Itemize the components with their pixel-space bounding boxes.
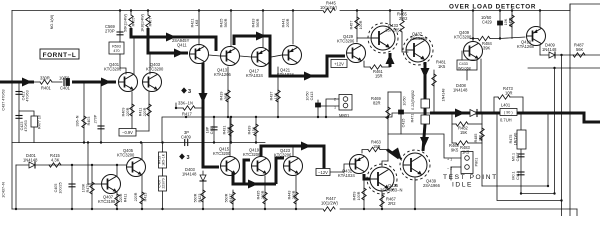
wire Q439 emitter bottom: [414, 178, 416, 209]
left border: [11, 11, 13, 210]
transistor Q423: [284, 157, 303, 176]
transistor Q421: [283, 46, 302, 65]
svg-text:C429: C429: [482, 20, 493, 25]
svg-text:C413: C413: [310, 92, 314, 101]
wire thick Q427 emitter down: [424, 62, 427, 99]
svg-text:R593: R593: [112, 45, 121, 49]
wire Q410 emitter / D409 line: [539, 45, 541, 55]
svg-text:2: 2: [334, 98, 336, 102]
svg-text:2R2: 2R2: [388, 201, 396, 206]
resistor R415: [49, 163, 61, 167]
node +12V box: [331, 60, 347, 68]
svg-text:C419: C419: [516, 171, 520, 180]
diode D408: [470, 110, 477, 117]
arrow input 2: [101, 78, 111, 87]
svg-text:M0.1: M0.1: [512, 153, 516, 161]
capacitor C409: [184, 140, 186, 146]
svg-text:2SA1966: 2SA1966: [423, 183, 441, 188]
wire Q433 collector: [389, 11, 391, 26]
connector M801: [339, 95, 352, 111]
arrow upper path 1: [166, 33, 176, 42]
svg-text:C437 470/63: C437 470/63: [2, 89, 6, 110]
svg-text:10(1/2W): 10(1/2W): [321, 201, 338, 206]
svg-text:2W2: 2W2: [399, 16, 408, 21]
svg-text:KTC3206: KTC3206: [274, 153, 292, 158]
svg-text:56R: 56R: [227, 126, 231, 133]
capacitor C415: [400, 92, 402, 134]
capacitor C419: [518, 172, 524, 175]
svg-text:R409: R409: [122, 108, 126, 117]
node -12V box: [316, 169, 330, 176]
svg-text:KTC3206: KTC3206: [243, 152, 261, 157]
top power rail: [12, 10, 322, 12]
svg-text:33K−1N: 33K−1N: [178, 101, 193, 106]
svg-text:56K: 56K: [576, 47, 584, 52]
capacitor C411: [213, 117, 215, 143]
wire thick Q419 collector to -12V: [261, 146, 324, 169]
svg-text:0.22(5W)B2: 0.22(5W)B2: [411, 90, 415, 110]
arrow mid path to +12V: [304, 72, 314, 81]
svg-text:10/50: 10/50: [403, 96, 407, 105]
resistor R484: [470, 38, 478, 40]
wire thick Q415 emitter rail: [233, 172, 276, 184]
resistor R423: [201, 190, 205, 202]
svg-text:KTA1024: KTA1024: [338, 173, 355, 178]
arrow down to Q439: [420, 137, 429, 147]
svg-text:KTA1024: KTA1024: [246, 73, 263, 78]
svg-text:KTC3198: KTC3198: [98, 199, 116, 204]
resistor R401: [40, 80, 52, 84]
junction dots output line: [451, 112, 453, 114]
transistor Q410: [527, 27, 546, 46]
svg-text:15R: 15R: [373, 144, 381, 149]
svg-text:R455: R455: [509, 18, 513, 27]
svg-text:2SC4883−N: 2SC4883−N: [380, 188, 402, 193]
svg-text:4.3K: 4.3K: [51, 158, 60, 163]
junction dots top rail: [119, 9, 121, 11]
transistor Q421 top wire: [292, 11, 294, 45]
resistor R439: [255, 117, 257, 143]
transistor Q401: [119, 73, 138, 92]
resistor R457: [356, 11, 358, 43]
svg-text:R401: R401: [41, 86, 52, 91]
resistor R403: [83, 82, 85, 143]
svg-text:200R: 200R: [261, 190, 265, 199]
wire feedback h193: [521, 193, 555, 195]
arrow Q415 emitter rail: [248, 180, 258, 189]
svg-text:223/70: 223/70: [162, 178, 166, 188]
svg-text:R413: R413: [144, 193, 148, 202]
svg-text:−0.9V: −0.9V: [122, 130, 133, 135]
svg-text:470/63: 470/63: [24, 120, 28, 131]
resistor R419: [227, 67, 229, 117]
svg-text:270P: 270P: [94, 114, 98, 123]
wire Q435 top: [382, 161, 388, 166]
resistor R407: [146, 15, 150, 27]
svg-text:18P: 18P: [206, 126, 210, 133]
capacitor C433 box: [461, 51, 463, 60]
svg-text:OVER LOAD DETECTOR: OVER LOAD DETECTOR: [449, 4, 536, 11]
svg-text:1N4148: 1N4148: [442, 89, 446, 102]
svg-text:R431: R431: [223, 126, 227, 135]
wire feedback h186: [482, 185, 548, 187]
wire thick riser to Q419 base: [244, 160, 250, 184]
svg-text:R411: R411: [124, 194, 128, 203]
svg-text:56R: 56R: [224, 92, 228, 99]
resistor R485: [481, 113, 483, 186]
wire thick Q413 collector to Q429 base: [234, 36, 345, 76]
junction dots right side: [560, 54, 562, 56]
svg-text:KTC3200: KTC3200: [213, 151, 231, 156]
resistor R411: [148, 92, 150, 131]
wire thick R471 to Q439: [424, 108, 427, 115]
wire to P801: [388, 134, 461, 158]
svg-text:TEST POINT: TEST POINT: [443, 174, 498, 181]
wire Q423 collector: [292, 146, 294, 156]
svg-text:1K5−1K: 1K5−1K: [162, 153, 166, 166]
svg-text:1N4148: 1N4148: [182, 172, 197, 177]
svg-text:3: 3: [187, 155, 190, 161]
resistor R419 box: [159, 152, 167, 168]
label FORNT-L box: [40, 49, 79, 59]
svg-text:10R: 10R: [505, 91, 513, 96]
wire thick Q431 emitter to Q435 base: [364, 174, 370, 179]
wire feedback h200: [497, 113, 562, 201]
wire Q410 base: [500, 37, 525, 39]
resistor R459 / Q431 emitter: [363, 179, 365, 209]
svg-text:15K: 15K: [252, 126, 256, 133]
svg-text:1N4148: 1N4148: [542, 47, 557, 52]
resistor R409: [131, 92, 133, 131]
svg-text:KTC3200: KTC3200: [117, 153, 135, 158]
svg-text:− 2: − 2: [447, 167, 452, 171]
wire thick riser to Q423 base: [276, 158, 284, 184]
capacitor C413: [317, 100, 319, 117]
wire mid-left horizontal: [12, 142, 265, 144]
arrow down Q427 emitter: [421, 68, 430, 78]
arrow upper path 2: [174, 49, 184, 58]
svg-text:470/63: 470/63: [26, 90, 30, 101]
svg-text:R441: R441: [282, 19, 286, 28]
svg-text:KTC3200: KTC3200: [146, 67, 164, 72]
svg-text:KTC3206: KTC3206: [104, 67, 122, 72]
svg-text:82R: 82R: [373, 101, 381, 106]
svg-text:200R: 200R: [286, 18, 290, 27]
svg-text:R459: R459: [353, 192, 357, 201]
svg-text:M0.1: M0.1: [512, 171, 516, 179]
resistor R479: [91, 165, 93, 209]
resistor R463b: [362, 150, 368, 154]
svg-text:L401: L401: [501, 103, 511, 108]
transistor Q433: [368, 23, 398, 53]
wire thick R407 node to Q411 base: [148, 28, 188, 53]
svg-text:560R: 560R: [225, 193, 229, 202]
svg-text:C417: C417: [516, 153, 520, 162]
transistor Q417: [252, 48, 271, 67]
wire thick output line: [430, 113, 600, 122]
svg-text:1K8(1/4W): 1K8(1/4W): [141, 14, 145, 32]
transistor Q413 top wire: [230, 11, 232, 47]
svg-text:R477 10: R477 10: [38, 115, 42, 129]
right border rail: [570, 4, 600, 11]
wire thick Q411 collector down to Q415 base: [203, 63, 219, 167]
resistor R431: [230, 117, 232, 143]
svg-text:1N4148: 1N4148: [23, 158, 38, 163]
wire thick input signal: [0, 81, 34, 84]
resistor R447 inline bottom rail: [323, 207, 335, 211]
svg-text:10/50: 10/50: [306, 91, 310, 100]
arrow Q419 collector path: [301, 142, 311, 151]
svg-text:R433: R433: [252, 19, 256, 28]
resistor R482: [451, 113, 453, 143]
arrow input 1: [22, 78, 32, 87]
transistor Q435: [367, 164, 397, 194]
svg-text:R479: R479: [86, 184, 90, 193]
svg-text:470: 470: [113, 49, 119, 53]
svg-text:2SC5358: 2SC5358: [410, 36, 428, 41]
svg-text:R403: R403: [87, 117, 91, 126]
svg-text:M801: M801: [339, 113, 350, 118]
wire Q431 base from -12V: [330, 164, 350, 172]
svg-text:1K8: 1K8: [195, 20, 199, 27]
node -0.9V box: [119, 129, 136, 137]
transistor Q413: [221, 47, 240, 66]
svg-text:R435: R435: [257, 191, 261, 200]
transistor Q405: [127, 158, 146, 177]
svg-text:+12V: +12V: [334, 62, 344, 67]
svg-text:KTA1266: KTA1266: [214, 72, 231, 77]
svg-text:+ 1: + 1: [447, 158, 452, 162]
resistor R593 box: [109, 42, 124, 54]
svg-text:R411: R411: [139, 108, 143, 117]
svg-text:R405: R405: [132, 18, 136, 27]
wire thick R405 node to Q413 base: [131, 28, 216, 51]
resistor R417: [175, 103, 177, 108]
svg-text:R421: R421: [191, 19, 195, 28]
wire right h68: [528, 67, 600, 69]
wire thick Q429 emitter to Q433 emitter: [389, 53, 392, 67]
svg-text:R419: R419: [220, 92, 224, 101]
wire mid horizontal bus: [162, 113, 430, 143]
svg-text:200R: 200R: [292, 190, 296, 199]
svg-text:103K: 103K: [82, 183, 86, 192]
wire Q415 collector: [229, 117, 231, 156]
svg-text:C415: C415: [402, 119, 406, 128]
arrow Q413-Q429 path: [256, 32, 266, 41]
svg-text:R443: R443: [288, 191, 292, 200]
arrow output line: [455, 109, 465, 118]
svg-text:2SA1858: 2SA1858: [385, 28, 403, 33]
svg-text:100R: 100R: [357, 191, 361, 200]
svg-text:KTA1268: KTA1268: [517, 44, 534, 49]
transistor Q411: [190, 45, 209, 64]
wire Q409 emitter: [480, 59, 482, 113]
svg-text:R439: R439: [248, 126, 252, 135]
resistor R465: [401, 11, 403, 21]
wire base links upper row: [209, 55, 220, 56]
svg-text:IDLE: IDLE: [452, 182, 473, 189]
wire thick R463 to Q439 base: [387, 150, 399, 159]
arrow down Q411 collector line: [199, 93, 208, 103]
capacitor C417: [518, 154, 524, 157]
svg-text:KTA1024: KTA1024: [277, 72, 294, 77]
svg-text:C409: C409: [181, 135, 192, 140]
wire drop 554: [554, 68, 556, 194]
resistor R477 box: [19, 111, 34, 116]
svg-text:1C437−N: 1C437−N: [2, 182, 6, 198]
arrow into Q439 base: [392, 148, 402, 162]
svg-text:R485: R485: [474, 134, 478, 143]
capacitor C401: [63, 79, 65, 86]
svg-text:1K5: 1K5: [462, 150, 470, 155]
junction dots bottom rail: [15, 208, 17, 210]
svg-text:336−N: 336−N: [76, 115, 80, 126]
bottom power rail: [12, 208, 322, 210]
junction dots mid bus: [185, 116, 187, 118]
svg-text:330R: 330R: [40, 76, 50, 81]
svg-text:( 90 ): ( 90 ): [504, 111, 513, 115]
resistor R487: [573, 53, 585, 57]
resistor R413: [140, 192, 144, 204]
transistor Q427: [403, 35, 433, 65]
svg-text:C411: C411: [210, 126, 214, 135]
capacitor C421: [18, 82, 20, 143]
resistor R435: [264, 176, 266, 209]
resistor R475 box: [520, 113, 522, 194]
svg-text:0.7UH: 0.7UH: [500, 118, 512, 123]
capacitor C423: [16, 116, 22, 119]
svg-text:FORNT−L: FORNT−L: [43, 52, 77, 59]
svg-text:560R: 560R: [194, 193, 198, 202]
node diamond 3 upper: [182, 88, 187, 93]
svg-text:NO.1(W): NO.1(W): [50, 15, 54, 30]
svg-text:KTC3206: KTC3206: [337, 39, 355, 44]
wire thick input after C401: [72, 81, 116, 84]
resistor R445 inline top rail: [323, 8, 335, 12]
svg-text:KTC3200: KTC3200: [454, 35, 472, 40]
svg-text:270P: 270P: [105, 29, 115, 34]
wire Q410 collector: [539, 11, 541, 28]
svg-text:R423: R423: [198, 194, 202, 203]
junction dots mid-left line: [83, 141, 85, 143]
transistor Q407 wires: [87, 143, 89, 185]
svg-text:100R: 100R: [359, 20, 363, 29]
capacitor C405: [71, 165, 73, 209]
svg-text:10/50: 10/50: [59, 76, 70, 81]
svg-text:W0.068: W0.068: [458, 66, 471, 70]
resistor R461: [364, 61, 370, 67]
svg-text:P801: P801: [475, 158, 479, 167]
inductor L401 box: [500, 109, 517, 116]
svg-text:560R: 560R: [224, 18, 228, 27]
transistor Q429: [347, 44, 366, 63]
svg-text:22K: 22K: [479, 134, 483, 141]
diode D409: [549, 52, 555, 58]
resistor R481: [433, 70, 435, 113]
resistor R469: [387, 92, 389, 161]
wire drop 548: [547, 113, 549, 186]
svg-text:9K5: 9K5: [451, 148, 459, 153]
svg-text:1N4148: 1N4148: [453, 88, 468, 93]
svg-text:220R: 220R: [134, 192, 138, 201]
svg-text:C405: C405: [54, 184, 58, 193]
resistor R467 / Q435 emitter: [381, 191, 383, 209]
svg-text:10(1/4W): 10(1/4W): [320, 5, 337, 10]
svg-text:1: 1: [334, 106, 336, 110]
resistor R427: [232, 190, 234, 209]
wire right vertical 561: [561, 55, 563, 216]
svg-text:15R: 15R: [375, 74, 383, 79]
connector P801: [461, 152, 473, 174]
svg-text:220R: 220R: [119, 193, 123, 202]
transistor Q415: [221, 157, 240, 176]
capacitor C569: [119, 11, 121, 43]
svg-text:R417: R417: [182, 112, 193, 117]
svg-text:1R(1W): 1R(1W): [514, 133, 518, 146]
svg-text:R471: R471: [411, 114, 415, 123]
transistor Q419: [252, 157, 271, 176]
transistor Q417 top wire: [262, 11, 264, 48]
svg-text:220R: 220R: [143, 107, 147, 116]
transistor Q405 wires: [141, 143, 143, 161]
transistor Q411 top wire: [198, 11, 200, 46]
svg-text:56K(1/4W): 56K(1/4W): [124, 14, 128, 32]
svg-text:100/25: 100/25: [59, 182, 63, 193]
svg-text:R425: R425: [220, 19, 224, 28]
svg-text:15K: 15K: [274, 92, 278, 99]
svg-text:C401: C401: [60, 86, 71, 91]
svg-text:220R: 220R: [126, 107, 130, 116]
svg-text:R475: R475: [509, 135, 513, 144]
junction dots lower-left line: [71, 164, 73, 166]
svg-text:560R: 560R: [256, 18, 260, 27]
capacitor C403: [100, 82, 102, 143]
svg-text:R437: R437: [270, 92, 274, 101]
svg-text:R407: R407: [149, 18, 153, 27]
junction dots input line: [18, 81, 20, 83]
resistor R473: [494, 97, 498, 113]
transistor Q407: [102, 175, 121, 194]
capacitor C429: [499, 11, 501, 39]
resistor R405: [129, 15, 133, 27]
transistor Q431: [350, 155, 369, 174]
diode D403: [202, 171, 204, 209]
svg-text:R457: R457: [350, 21, 354, 30]
svg-text:10K: 10K: [504, 18, 508, 25]
svg-text:39K: 39K: [483, 46, 491, 51]
svg-text:R427: R427: [229, 194, 233, 203]
resistor R483: [452, 142, 456, 144]
transistor Q403: [143, 73, 162, 92]
svg-text:−12V: −12V: [318, 170, 328, 175]
transistor Q409: [464, 42, 483, 61]
node diamond 3 lower: [180, 154, 185, 159]
arrow up to Q433: [386, 54, 395, 64]
wire Q409 collector: [472, 11, 474, 42]
svg-text:15K: 15K: [460, 130, 468, 135]
resistor R471 boxes: [421, 99, 430, 108]
transistor Q439: [400, 150, 430, 180]
resistor R455: [511, 11, 513, 39]
svg-text:Q411: Q411: [177, 43, 187, 48]
wire lower-left horizontal: [16, 164, 126, 166]
svg-text:1K5: 1K5: [438, 64, 446, 69]
resistor R443: [295, 176, 297, 209]
capacitor C407 box: [159, 176, 167, 191]
svg-text:3: 3: [188, 89, 191, 95]
resistor R437: [277, 67, 279, 117]
diode D401: [29, 162, 35, 168]
